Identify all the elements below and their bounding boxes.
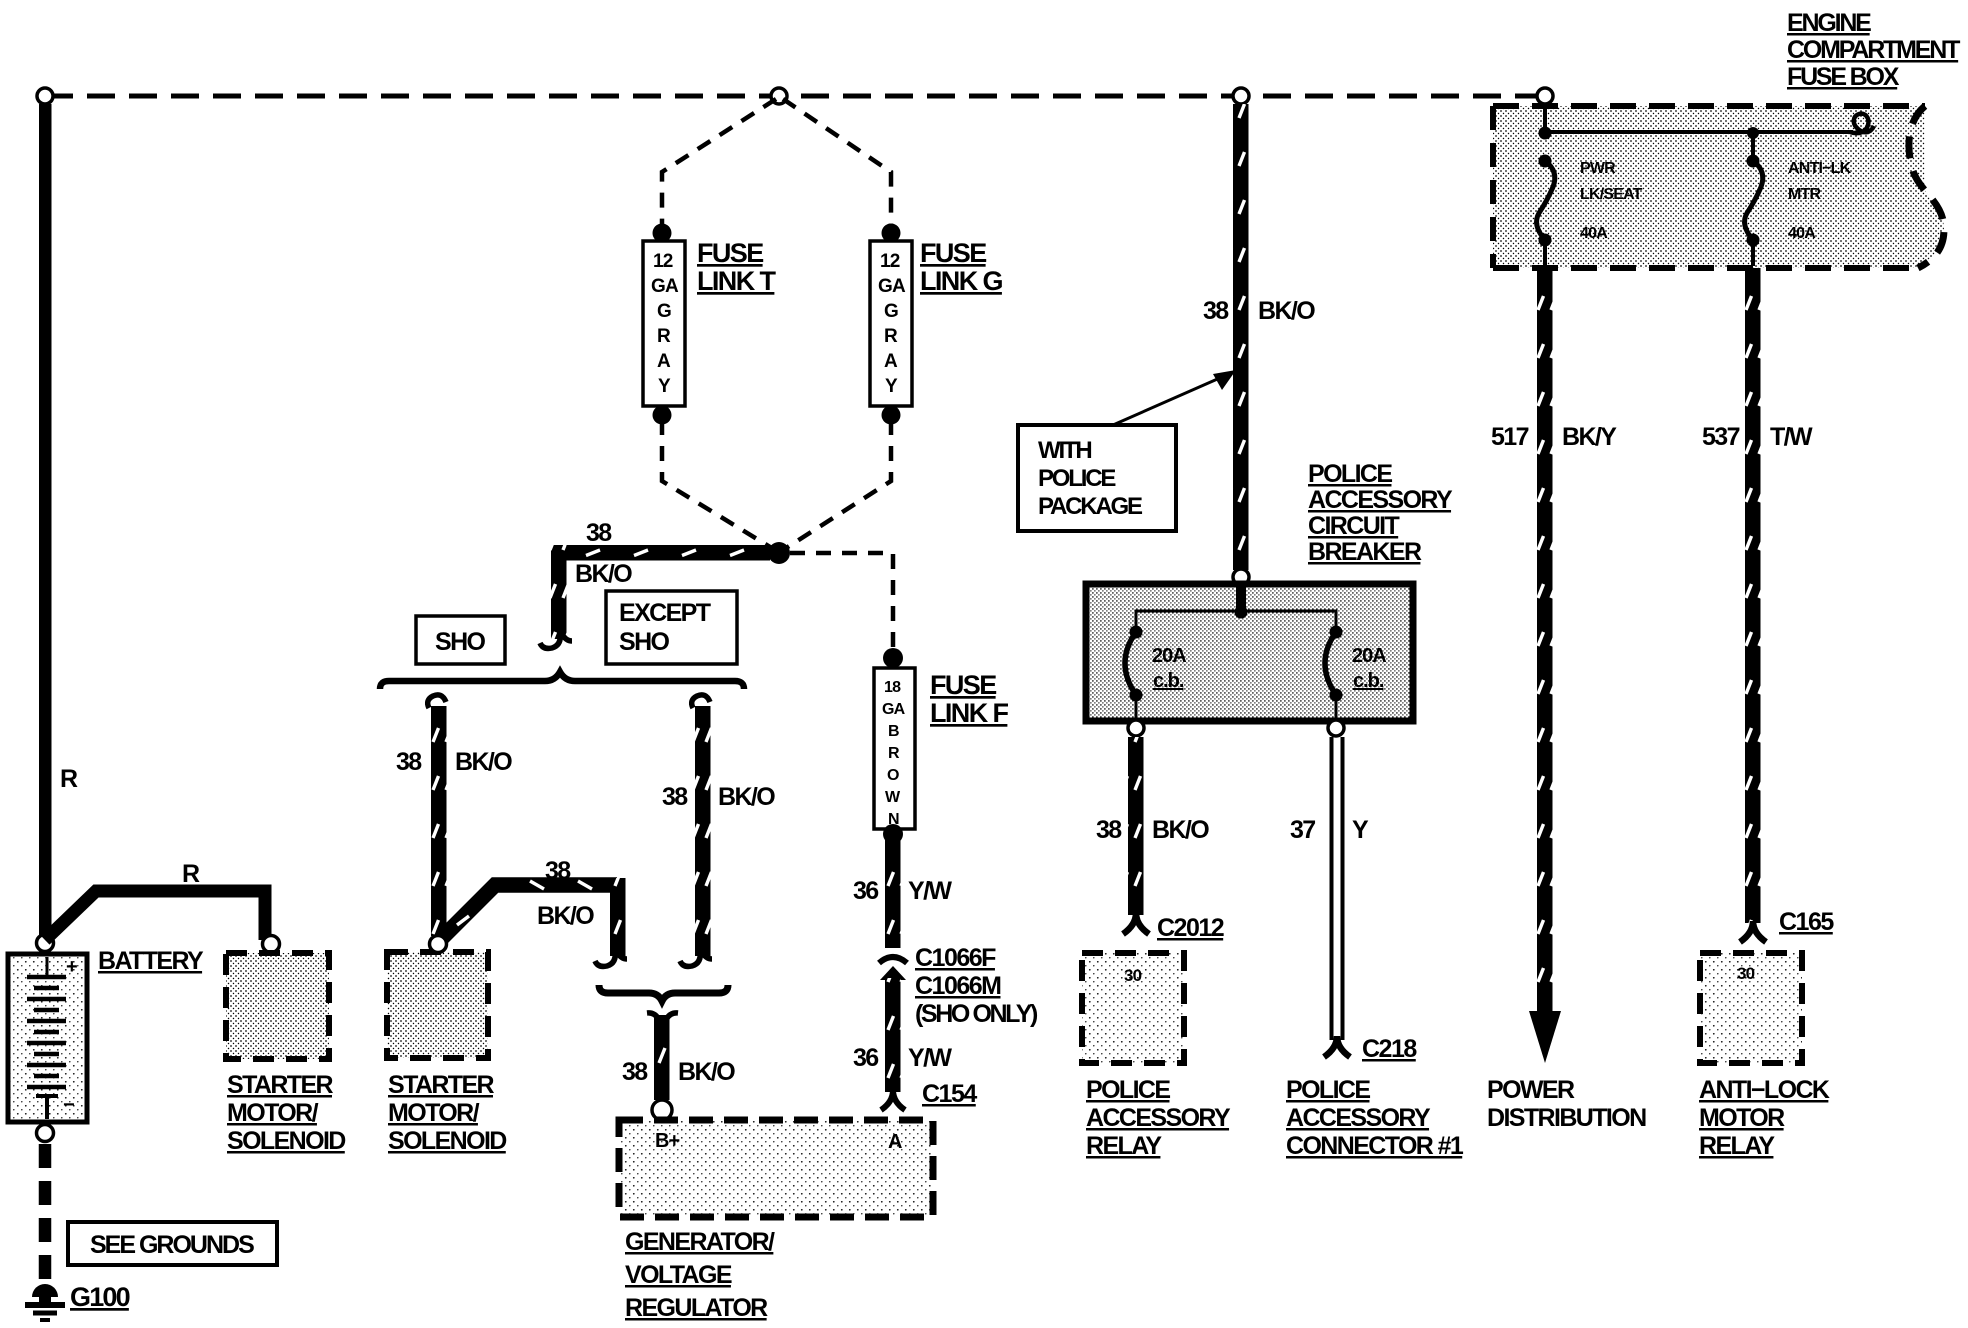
wire 38 BK/O: SHO branch down to starter motor 2 (hatched) [428,695,447,936]
arrow from note box to police feed wire [1113,370,1236,425]
svg-text:EXCEPT: EXCEPT [619,599,711,627]
svg-text:Y/W: Y/W [908,1044,952,1072]
svg-text:537: 537 [1702,423,1740,451]
fuse link G (12 GA GRAY) [870,241,912,406]
svg-text:VOLTAGE: VOLTAGE [625,1261,732,1289]
option box EXCEPT SHO [606,591,737,664]
svg-text:GA: GA [882,701,906,718]
brace over SHO / EXCEPT SHO wires [380,672,744,689]
node: fuse box internal junction [1539,127,1552,140]
svg-text:FUSE: FUSE [697,238,763,268]
wire: dashed from fuse link G to node [783,420,891,550]
svg-text:A: A [657,351,671,372]
svg-text:18: 18 [884,679,901,696]
svg-text:SOLENOID: SOLENOID [388,1127,506,1155]
fuse link F (18 GA BROWN) [874,668,915,829]
svg-text:C1066F: C1066F [915,944,996,972]
label POLICE ACCESSORY CONNECTOR #1 [1286,1076,1464,1160]
svg-text:POLICE: POLICE [1086,1076,1170,1104]
label FUSE LINK G [920,238,1002,296]
node: breaker output 2 [1328,720,1344,736]
wire: internal bus to anti-lk fuse [1545,130,1853,134]
circuit breaker 2 (20A c.b.) [1325,626,1386,722]
svg-text:517: 517 [1491,423,1529,451]
svg-text:STARTER: STARTER [388,1071,495,1099]
svg-text:c.b.: c.b. [1353,670,1384,692]
svg-text:BK/O: BK/O [455,748,512,776]
wire: top power bus (dashed) [45,94,1545,99]
label GENERATOR/VOLTAGE REGULATOR [625,1228,775,1322]
svg-text:GENERATOR/: GENERATOR/ [625,1228,775,1256]
wire 38 BK/O: EXCEPT SHO branch (hatched) [680,695,712,967]
svg-text:ACCESSORY: ACCESSORY [1086,1104,1231,1132]
svg-text:RELAY: RELAY [1699,1132,1775,1160]
svg-text:PWR: PWR [1580,160,1616,177]
svg-text:36: 36 [853,877,878,905]
node: fuse link T bottom [653,406,672,425]
fuse PWR LK/SEAT 40A [1537,155,1643,267]
wire 517 BK/Y: fuse box to power distribution (hatched) [1537,268,1553,1013]
svg-text:POLICE: POLICE [1308,460,1392,488]
svg-text:COMPARTMENT: COMPARTMENT [1787,36,1960,64]
connector C165 (fork) [1740,921,1766,942]
wire: dashed drop from bus to fuse link G [783,99,891,229]
svg-text:T/W: T/W [1770,423,1813,451]
svg-text:BK/O: BK/O [1258,297,1315,325]
wire 37 Y: breaker to C218 (double line) [1332,737,1343,1040]
node: bus tap at police feed [1233,88,1249,104]
svg-text:GA: GA [878,276,906,297]
wire: battery positive feed (solid) [39,104,52,939]
svg-text:SHO: SHO [619,628,670,656]
svg-text:−: − [63,1094,74,1116]
svg-text:C1066M: C1066M [915,972,1001,1000]
node: generator B+ terminal [652,1100,672,1120]
wire: dashed drop from bus to fuse link T [662,99,776,229]
svg-text:BK/O: BK/O [678,1058,735,1086]
svg-text:38: 38 [545,857,571,885]
svg-text:W: W [885,789,901,806]
circuit breaker 1 (20A c.b.) [1125,626,1186,722]
connector C218 (fork) [1324,1036,1350,1057]
svg-text:20A: 20A [1152,645,1186,667]
svg-text:38: 38 [622,1058,648,1086]
svg-text:SOLENOID: SOLENOID [227,1127,345,1155]
svg-text:Y: Y [885,376,898,397]
svg-text:SEE GROUNDS: SEE GROUNDS [90,1231,254,1259]
wire R: battery to starter motor 1 (solid) [45,891,265,940]
wire stub: internal bus continuation hook [1850,114,1874,134]
svg-text:PACKAGE: PACKAGE [1038,493,1143,520]
svg-text:c.b.: c.b. [1153,670,1184,692]
svg-text:ANTI−LOCK: ANTI−LOCK [1699,1076,1830,1104]
svg-text:R: R [888,745,900,762]
node: starter motor 1 terminal [263,936,280,953]
wire 36 Y/W: fuse link F to C1066 (hatched) [885,840,901,948]
svg-text:40A: 40A [1580,225,1608,242]
svg-text:BREAKER: BREAKER [1308,538,1422,566]
node: bus tap at battery feed [37,88,53,104]
node: fuse link F bottom [883,824,903,844]
svg-text:Y/W: Y/W [908,877,952,905]
node: fuse link F top [883,648,903,668]
svg-text:FUSE: FUSE [920,238,986,268]
police accessory circuit breaker box [1086,584,1413,721]
label FUSE LINK T [697,238,776,296]
node: breaker box input [1233,569,1249,585]
svg-text:Y: Y [1352,816,1369,844]
svg-text:REGULATOR: REGULATOR [625,1294,768,1322]
svg-text:+: + [66,956,77,978]
svg-text:MOTOR/: MOTOR/ [388,1099,480,1127]
svg-text:38: 38 [1096,816,1122,844]
ground G100 [25,1284,65,1320]
svg-text:R: R [884,326,898,347]
node: bus tap at fuse links [771,88,787,104]
wire 38 BK/O: brace to generator B+ (hatched) [647,1013,678,1100]
svg-text:ANTI−LK: ANTI−LK [1788,160,1852,177]
svg-text:B: B [888,723,899,740]
svg-text:BK/O: BK/O [718,783,775,811]
svg-text:BK/O: BK/O [575,560,632,588]
svg-text:STARTER: STARTER [227,1071,334,1099]
connector C154 (fork to generator A) [881,1090,905,1110]
connector C2012 (fork) [1123,913,1149,934]
svg-text:C2012: C2012 [1157,914,1224,942]
svg-text:MTR: MTR [1788,186,1822,203]
node: fuse link junction [768,542,790,564]
svg-text:GA: GA [651,276,679,297]
svg-text:SHO: SHO [435,628,486,656]
starter motor/solenoid 1 (dashed box) [226,953,329,1059]
label STARTER MOTOR/SOLENOID 1 [227,1071,345,1155]
node: fuse link G bottom [882,406,901,425]
svg-text:38: 38 [586,519,612,547]
svg-text:12: 12 [880,251,900,272]
wire 38 BK/O: breaker to C2012 (hatched) [1128,737,1144,915]
svg-text:38: 38 [396,748,422,776]
svg-text:POLICE: POLICE [1038,465,1116,492]
svg-text:A: A [884,351,898,372]
wire 537 T/W: fuse box to anti-lock relay (hatched) [1745,268,1761,923]
svg-text:20A: 20A [1352,645,1386,667]
svg-text:(SHO ONLY): (SHO ONLY) [915,1000,1038,1028]
generator/voltage regulator (dashed box) [619,1120,933,1217]
svg-text:FUSE: FUSE [930,670,996,700]
svg-text:LK/SEAT: LK/SEAT [1580,186,1643,203]
svg-text:ACCESSORY: ACCESSORY [1308,486,1453,514]
svg-text:G100: G100 [70,1282,130,1312]
wire 38 BK/O: bus to police circuit breaker (hatched) [1233,104,1249,570]
anti-lock motor relay (dashed box) [1700,953,1802,1063]
fuse ANTI-LK MTR 40A [1745,127,1852,266]
wire 36 Y/W: C1066 to C154 (hatched) [885,978,901,1092]
svg-text:RELAY: RELAY [1086,1132,1162,1160]
label ANTI-LOCK MOTOR RELAY [1699,1076,1830,1160]
svg-text:36: 36 [853,1044,878,1072]
svg-text:FUSE BOX: FUSE BOX [1787,63,1900,91]
svg-text:MOTOR: MOTOR [1699,1104,1785,1132]
svg-text:38: 38 [662,783,688,811]
node: battery negative terminal [37,1125,54,1142]
svg-text:B+: B+ [655,1130,679,1152]
svg-text:C165: C165 [1779,908,1834,936]
svg-text:WITH: WITH [1038,437,1091,464]
svg-text:O: O [887,767,899,784]
arrowhead: power distribution feed [1529,1011,1561,1063]
label ENGINE COMPARTMENT FUSE BOX [1787,9,1960,91]
svg-text:LINK G: LINK G [920,266,1002,296]
wire: dashed from junction to fuse link F [790,553,893,650]
wire 38 BK/O: starter 2 to generator branch (hatched) [438,878,627,966]
svg-text:BK/Y: BK/Y [1562,423,1617,451]
svg-text:A: A [888,1131,902,1153]
svg-text:37: 37 [1290,816,1315,844]
starter motor/solenoid 2 (dashed box) [387,952,488,1058]
label STARTER MOTOR/SOLENOID 2 [388,1071,506,1155]
node: battery positive terminal [37,935,54,952]
label FUSE LINK F [930,670,1008,728]
note box SEE GROUNDS [68,1222,277,1265]
label POLICE ACCESSORY RELAY [1086,1076,1231,1160]
svg-text:POWER: POWER [1487,1076,1575,1104]
svg-text:R: R [182,860,200,888]
svg-text:DISTRIBUTION: DISTRIBUTION [1487,1104,1646,1132]
svg-text:BK/O: BK/O [1152,816,1209,844]
svg-text:30: 30 [1737,964,1755,983]
node: bus tap at fuse box [1537,88,1553,104]
node: starter motor 2 terminal [430,936,447,953]
svg-text:CONNECTOR #1: CONNECTOR #1 [1286,1132,1464,1160]
svg-text:MOTOR/: MOTOR/ [227,1099,319,1127]
svg-text:ENGINE: ENGINE [1787,9,1871,37]
svg-text:CIRCUIT: CIRCUIT [1308,512,1400,540]
brace joining generator feed wires [599,985,728,1001]
wire: battery ground (thick dashed) [39,1144,52,1288]
node: breaker output 1 [1128,720,1144,736]
svg-text:30: 30 [1124,966,1142,985]
svg-text:ACCESSORY: ACCESSORY [1286,1104,1431,1132]
engine compartment fuse box (dashed, torn right edge) [1493,106,1944,268]
battery [8,954,87,1122]
svg-text:BK/O: BK/O [537,902,594,930]
svg-text:R: R [657,326,671,347]
label POLICE ACCESSORY CIRCUIT BREAKER [1308,460,1453,566]
svg-text:C218: C218 [1362,1035,1417,1063]
wire: dashed from fuse link T to node [662,420,775,550]
svg-text:12: 12 [653,251,673,272]
svg-text:40A: 40A [1788,225,1816,242]
svg-text:G: G [884,301,898,322]
svg-text:C154: C154 [922,1080,977,1108]
wire: bus into fuse box [1543,104,1547,131]
svg-text:38: 38 [1203,297,1229,325]
svg-text:Y: Y [658,376,671,397]
note box WITH POLICE PACKAGE [1018,425,1176,531]
node: fuse link G top [882,224,901,243]
police accessory relay (dashed box) [1082,953,1184,1063]
connector C1066F/C1066M (inline) [879,957,907,980]
svg-text:G: G [657,301,671,322]
svg-text:BATTERY: BATTERY [98,947,204,975]
svg-text:R: R [60,765,78,793]
fuse link T (12 GA GRAY) [643,241,685,406]
svg-text:LINK F: LINK F [930,698,1008,728]
node: fuse link T top [653,224,672,243]
svg-text:LINK T: LINK T [697,266,776,296]
option box SHO [416,616,505,664]
svg-text:POLICE: POLICE [1286,1076,1370,1104]
label POWER DISTRIBUTION [1487,1076,1646,1132]
wire 38 BK/O: junction to SHO brace (hatched) [540,545,770,648]
